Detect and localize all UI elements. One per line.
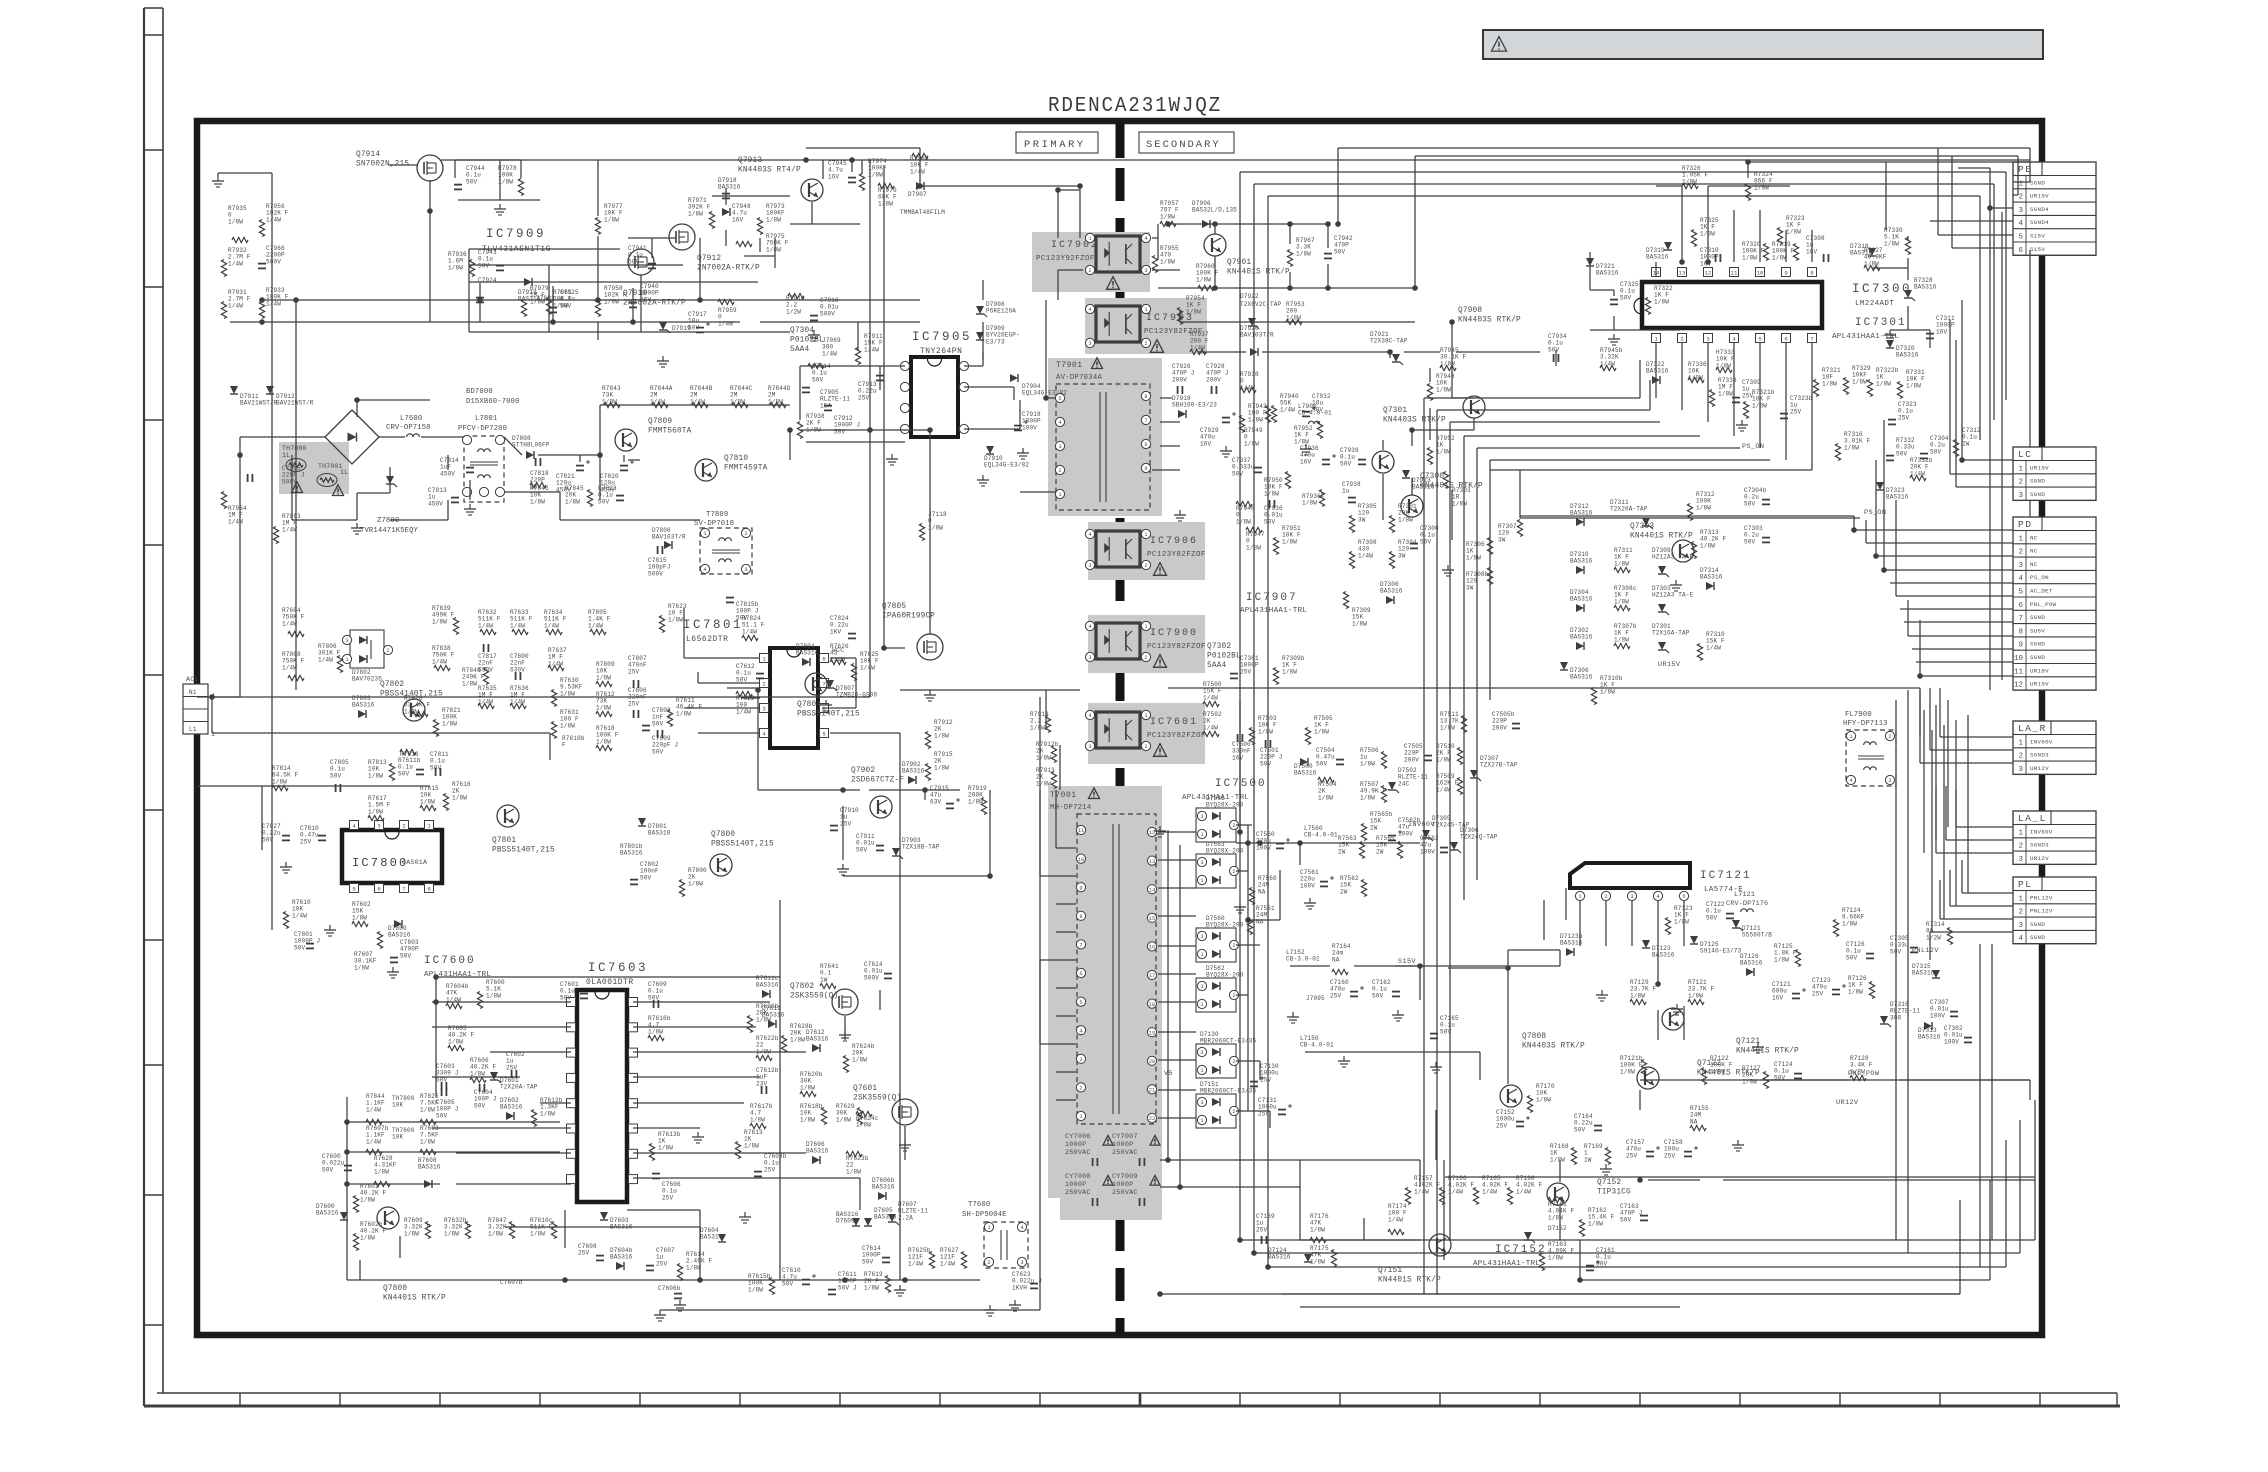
svg-text:TVR14471K5EQY: TVR14471K5EQY [360,527,419,535]
svg-text:1/8W: 1/8W [1696,504,1711,511]
optocoupler IC7601 [1096,712,1140,748]
wire [2029,148,2031,182]
svg-text:2: 2 [2018,549,2023,557]
transistor Q7802 [832,989,858,1015]
wire [857,322,859,350]
wire [1236,824,1252,826]
svg-text:1/8W: 1/8W [540,1110,555,1117]
junction [344,1119,350,1125]
svg-text:UR15V: UR15V [2030,464,2049,471]
svg-text:1/8W: 1/8W [1248,416,1263,423]
svg-text:BAS316: BAS316 [1896,352,1919,359]
svg-text:T2X20A-TAP: T2X20A-TAP [1610,506,1648,513]
wire [1019,400,1021,429]
svg-text:10: 10 [1757,269,1764,276]
wire [1895,700,1897,763]
svg-text:2N7002A-RTK/P: 2N7002A-RTK/P [697,265,760,273]
svg-text:RDENCA231WJQZ: RDENCA231WJQZ [1048,95,1222,118]
wire [1327,264,1329,288]
svg-text:4: 4 [1088,532,1091,538]
thermistor TH7000 [286,459,306,472]
wire [920,185,1080,187]
svg-text:1/8W: 1/8W [228,218,243,225]
svg-text:T2X16A-TAP: T2X16A-TAP [1652,630,1690,637]
svg-text:3: 3 [1630,894,1633,900]
junction [1212,221,1218,227]
svg-text:3: 3 [1079,1057,1082,1063]
svg-text:1/8W: 1/8W [1614,560,1629,567]
svg-text:1/4W: 1/4W [228,260,243,267]
svg-text:1/8W: 1/8W [1718,390,1733,397]
svg-text:SGND: SGND [2030,491,2045,498]
wire [1989,168,1991,208]
svg-text:PC123Y82FZOF: PC123Y82FZOF [1147,732,1206,740]
wire [1382,440,1384,450]
svg-text:NC: NC [2030,548,2038,555]
svg-text:Q7302: Q7302 [1207,643,1231,651]
svg-text:1/8W: 1/8W [1160,213,1175,220]
wire [1900,1079,2030,1081]
svg-text:1000P: 1000P [1065,1141,1086,1149]
wire [1938,234,2013,236]
wire [1168,687,1920,689]
wire [1262,351,1390,353]
svg-text:Q7601: Q7601 [853,1085,877,1093]
wire [1520,515,1854,517]
svg-text:50V: 50V [478,262,490,269]
ground [1397,1010,1399,1015]
wire [1254,1252,2020,1254]
svg-text:2W: 2W [1370,824,1378,831]
wire [1950,905,2013,907]
svg-text:CB-4.0-01: CB-4.0-01 [1298,410,1332,417]
svg-text:BAS316: BAS316 [418,1164,441,1171]
svg-text:3: 3 [1088,341,1091,347]
wire [1429,408,1431,440]
svg-text:3: 3 [762,705,765,712]
wire [600,404,790,406]
wire [727,687,760,689]
svg-text:3: 3 [2018,562,2023,570]
wire [1962,459,2013,461]
svg-text:1/4W: 1/4W [742,628,757,635]
svg-text:3: 3 [1088,744,1091,750]
ground [1292,1012,1294,1017]
ground [989,1305,991,1310]
svg-text:1: 1 [2018,465,2023,473]
transistor Q7802 [403,699,425,721]
svg-text:Q7121: Q7121 [1736,1038,1760,1046]
svg-text:1/8W: 1/8W [368,772,383,779]
diode pair at 1196,1044 [1196,1044,1236,1078]
svg-text:CB-3.0-02: CB-3.0-02 [1286,956,1320,963]
svg-text:BAS316: BAS316 [872,1184,895,1191]
svg-text:UR12V: UR12V [2030,765,2049,772]
svg-text:1/8W: 1/8W [1842,920,1857,927]
wire [1180,321,1415,323]
svg-text:2: 2 [1144,563,1147,569]
wire [1476,448,1478,880]
svg-text:25V: 25V [628,668,640,675]
junction [550,319,556,325]
svg-text:50V: 50V [1620,294,1632,301]
junction [1577,1277,1583,1283]
ground [1741,420,1743,425]
wire [1507,950,1509,1084]
svg-text:AC_DET: AC_DET [2030,588,2053,595]
svg-text:1/4W: 1/4W [1436,786,1451,793]
svg-text:TIP31CG: TIP31CG [1597,1189,1631,1197]
wire [1354,965,1420,967]
transistor Q7908 [1463,396,1485,418]
wire [1890,582,2013,584]
svg-text:APL431HAA1-TRL: APL431HAA1-TRL [1240,607,1307,615]
svg-text:50V: 50V [1896,450,1908,457]
ground [1239,902,1241,907]
svg-text:25V: 25V [858,394,870,401]
junction [842,1277,848,1283]
svg-text:1/4W: 1/4W [282,620,297,627]
junction [344,1181,350,1187]
svg-text:15: 15 [1149,916,1155,922]
svg-text:C7924: C7924 [478,277,497,284]
junction [1251,1250,1257,1256]
junction [597,452,603,458]
wire [759,238,761,252]
svg-text:1/8W: 1/8W [1550,1156,1565,1163]
svg-text:TZX24Q-TAP: TZX24Q-TAP [1460,834,1498,841]
svg-text:1/8W: 1/8W [565,498,580,505]
svg-text:1: 1 [2018,895,2023,903]
svg-text:21: 21 [1149,1088,1155,1094]
svg-text:PNL12V: PNL12V [2030,908,2053,915]
svg-text:J7095: J7095 [1306,995,1325,1002]
wire [1613,290,1615,296]
junction [1409,427,1415,433]
wire [929,430,931,634]
svg-text:3W: 3W [1358,516,1366,523]
wire [899,733,901,1280]
svg-text:3: 3 [1200,814,1203,820]
wire [806,441,905,443]
wire [633,1127,700,1129]
wire [357,399,430,401]
svg-text:2: 2 [1232,869,1235,875]
wire [1991,944,1993,1240]
wire [741,697,760,699]
svg-text:UR15V: UR15V [2030,193,2049,200]
wire [499,160,501,200]
svg-text:KN4401S RTK/P: KN4401S RTK/P [1378,1277,1441,1285]
svg-text:100V: 100V [1420,848,1435,855]
svg-text:1/8W: 1/8W [1630,992,1645,999]
svg-text:16V: 16V [1232,754,1244,761]
transistor Q7808 [1500,1085,1522,1107]
svg-text:500V: 500V [864,974,879,981]
wire [1579,1240,1581,1280]
svg-text:22: 22 [1149,1116,1155,1122]
wire [1520,517,1860,519]
ground [1159,826,1161,831]
connector LC [2013,447,2096,500]
wire [560,519,700,521]
svg-text:L6562DTR: L6562DTR [686,635,728,644]
wire [830,707,856,709]
svg-text:1: 1 [1144,624,1147,630]
wire [1055,790,1057,848]
svg-text:0AS01A: 0AS01A [402,859,427,866]
wire [1160,1293,1960,1295]
wire [1300,1306,1680,1308]
svg-text:SGND3: SGND3 [2030,842,2049,849]
svg-text:2: 2 [1144,655,1147,661]
wire [1158,831,1196,833]
wire [2005,172,2007,400]
wire [432,1076,520,1078]
svg-text:1/4W: 1/4W [1203,694,1218,701]
junction [427,208,433,214]
transistor Q7801 [497,805,519,827]
svg-text:500V: 500V [282,478,297,485]
gray zone T7001 [1048,786,1162,1198]
svg-text:50V: 50V [474,1102,486,1109]
svg-text:1/8W: 1/8W [420,1138,435,1145]
svg-text:1/8W: 1/8W [1774,956,1789,963]
svg-text:1/4W: 1/4W [1516,1188,1531,1195]
wire [1785,230,1787,262]
ground [813,330,815,335]
svg-text:1/8W: 1/8W [1196,276,1211,283]
wire [1958,167,1990,169]
wire [389,467,391,493]
svg-text:D7907: D7907 [908,191,927,198]
svg-text:13: 13 [1679,269,1686,276]
svg-text:500V: 500V [648,570,663,577]
svg-text:E3/73: E3/73 [986,338,1005,345]
svg-text:TZX18B-TAP: TZX18B-TAP [902,844,940,851]
svg-text:Q7908: Q7908 [1458,307,1482,315]
svg-text:S15V: S15V [2030,233,2045,240]
wire [1305,1051,1480,1053]
wire [559,492,561,520]
PRIMARY label [1016,132,1098,153]
wire [1967,715,1969,893]
svg-text:6: 6 [2018,247,2023,255]
svg-text:2W: 2W [1376,848,1384,855]
wire [359,1260,361,1280]
wire [1013,387,1015,400]
svg-text:25V: 25V [1496,1122,1508,1129]
wire [240,436,325,438]
junction [697,1277,703,1283]
wire [1989,1180,1991,1280]
wire [1198,351,1246,353]
wire [1445,1176,2035,1178]
ground [1675,580,1677,585]
wire [1961,300,1963,460]
wire [1940,736,2013,738]
svg-text:N1: N1 [189,689,197,696]
svg-text:KN4401S RTK/P: KN4401S RTK/P [1736,1048,1799,1056]
wire [520,160,522,178]
svg-text:1/8W: 1/8W [404,1230,419,1237]
wire [830,732,900,734]
ground [662,356,664,361]
svg-text:1/8W: 1/8W [452,794,467,801]
gray zone IC7902 [1032,232,1150,292]
svg-text:UR15V: UR15V [1658,661,1681,669]
svg-text:11: 11 [1731,269,1738,276]
main schematic frame [197,121,2042,1335]
wire [1039,960,1041,1044]
svg-text:16: 16 [1149,945,1155,951]
svg-text:50V: 50V [1260,760,1272,767]
junction [902,1277,908,1283]
svg-text:1/4W: 1/4W [1482,1188,1497,1195]
wire [2017,156,2019,195]
svg-text:Q7804: Q7804 [797,701,821,709]
ground [1309,898,1311,903]
wire [697,672,699,683]
wire [346,1097,348,1280]
junction [1417,963,1423,969]
svg-text:FMMT459TA: FMMT459TA [724,465,768,473]
svg-text:1/4W: 1/4W [266,216,281,223]
wire [1039,790,1041,876]
ground [899,1285,901,1290]
wire [1059,745,1061,790]
svg-text:6: 6 [1144,442,1147,448]
junction [595,297,601,303]
svg-text:200V: 200V [1404,756,1419,763]
svg-text:IC7300: IC7300 [1852,282,1912,296]
svg-text:IC7801: IC7801 [683,618,743,632]
junction [433,974,439,980]
ground [1737,1140,1739,1145]
wire [1158,1117,1196,1119]
wire [1254,183,1994,185]
wire [1269,1111,1271,1128]
ground [697,1132,699,1137]
wire [1907,306,1909,330]
wire [855,658,857,708]
junction [1745,159,1751,165]
wire [879,366,881,390]
svg-text:1: 1 [1058,492,1061,498]
wire [964,386,1014,388]
junction [344,1149,350,1155]
wire [1579,900,1581,946]
wire [883,166,885,648]
ground [1447,565,1449,570]
svg-text:1/4W: 1/4W [510,622,525,629]
wire [379,436,405,438]
svg-text:PNL12V: PNL12V [2030,894,2053,901]
diode D7802 BAV70235 pack [350,630,384,668]
ground [499,204,501,209]
wire [660,1309,1040,1311]
junction [1212,285,1218,291]
wire [198,785,430,787]
svg-text:1/4W: 1/4W [864,346,879,353]
wire [1448,967,1508,969]
wire [1993,184,1995,420]
svg-text:BAS316: BAS316 [902,768,925,775]
svg-text:630V: 630V [510,666,525,673]
svg-text:PC123Y92FZOF: PC123Y92FZOF [1036,255,1095,263]
wire [1919,688,1921,763]
wire [261,786,263,850]
svg-text:INV60V: INV60V [1408,821,1435,829]
ground [285,862,287,867]
wire [1290,965,1330,967]
wire [859,1178,861,1210]
svg-text:1/8W: 1/8W [1786,228,1801,235]
junction [917,183,923,189]
svg-text:1/8W: 1/8W [354,964,369,971]
svg-text:1/8W: 1/8W [470,1070,485,1077]
wire [1907,258,1909,280]
wire [2034,1100,2036,1240]
ground [982,475,984,480]
wire [1946,839,2013,841]
ground [659,1310,661,1315]
svg-text:100V: 100V [1930,1012,1945,1019]
svg-text:1/8W: 1/8W [878,200,893,207]
wire [1152,269,1180,271]
wire [1631,900,1633,946]
wire [469,480,471,500]
svg-text:SECONDARY: SECONDARY [1146,139,1221,151]
wire [1168,223,1330,225]
transistor Q7600 [377,1207,399,1229]
svg-text:25V: 25V [656,1260,668,1267]
svg-text:UR12V: UR12V [1836,1099,1859,1107]
junction [987,873,993,879]
svg-text:9: 9 [1144,466,1147,472]
svg-text:6: 6 [377,885,380,892]
svg-text:KN4401S RTK/P: KN4401S RTK/P [1227,269,1290,277]
wire [1930,749,2013,751]
svg-text:1/8W: 1/8W [1302,500,1317,507]
transistor Q7121 [1662,1008,1684,1030]
junction [293,297,299,303]
svg-text:1/8W: 1/8W [1548,1254,1563,1261]
wire [1247,825,1249,1111]
svg-text:1/8W: 1/8W [934,732,949,739]
wire [1907,236,1909,240]
ground [1601,990,1603,995]
wire [844,1016,846,1040]
transistor Q7914 [417,155,443,181]
svg-text:CY7006: CY7006 [1065,1133,1091,1141]
svg-text:1/4W: 1/4W [1414,1188,1429,1195]
svg-text:SGND4: SGND4 [2030,219,2049,226]
wire [1479,1052,1481,1080]
svg-text:4: 4 [2018,935,2023,943]
wire [1158,1031,1196,1033]
wire [436,976,780,978]
wire [1937,148,1939,235]
junction [1873,553,1879,559]
junction [562,1277,568,1283]
svg-text:BAS316: BAS316 [1918,1034,1941,1041]
svg-text:25V: 25V [1626,1152,1638,1159]
wire [1655,262,1657,277]
transistor Q7805 [917,634,943,660]
svg-text:11: 11 [2014,668,2024,676]
svg-text:1/4W: 1/4W [318,656,333,663]
